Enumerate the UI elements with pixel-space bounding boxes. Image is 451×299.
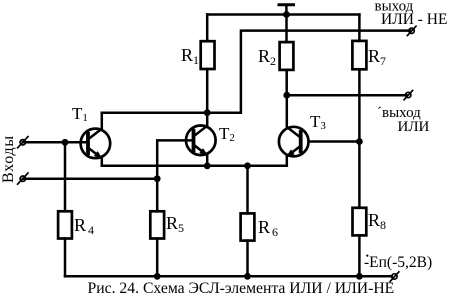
node R5 bottom: [154, 273, 161, 280]
svg-text:Т2: Т2: [219, 124, 235, 144]
label output OR-NOT: [375, 0, 448, 28]
svg-text:Рис. 24. Схема ЭСЛ-элемента ИЛ: Рис. 24. Схема ЭСЛ-элемента ИЛИ / ИЛИ-НЕ: [88, 280, 395, 297]
transistor T2: [186, 113, 235, 166]
wire input line 2: [23, 177, 157, 180]
wire T3 base: [309, 140, 359, 143]
node input 1 / R4: [62, 139, 69, 146]
svg-text:-Eп(-5,2В): -Eп(-5,2В): [364, 254, 432, 271]
resistor R7: [352, 15, 386, 142]
terminal input 2: [18, 173, 28, 184]
wire OR output line: [287, 94, 407, 97]
wire collector node to OR-NOT output: [207, 31, 410, 113]
node junction top rail / R2: [283, 11, 290, 18]
resistor R1: [181, 15, 215, 113]
resistor R8: [353, 208, 387, 276]
svg-text:ИЛИ - НЕ: ИЛИ - НЕ: [381, 11, 447, 28]
wire R4 branch: [64, 142, 67, 211]
svg-text:ИЛИ: ИЛИ: [398, 119, 430, 135]
wire T2 base branch: [157, 140, 193, 178]
wire emitter rail: [102, 165, 287, 168]
resistor R4: [58, 211, 94, 276]
label output OR: [377, 105, 430, 135]
transistor T1: [72, 104, 110, 166]
node input 2 / R5 / T2 base: [154, 175, 161, 182]
svg-text:Т3: Т3: [310, 112, 326, 132]
svg-text:R8: R8: [368, 210, 386, 232]
node R6 bottom: [244, 273, 251, 280]
resistor R5: [150, 179, 184, 277]
svg-text:R2: R2: [258, 46, 276, 68]
node emitter rail / R6: [244, 162, 251, 169]
label supply -Ep: [366, 255, 368, 257]
wire top ground rail: [207, 13, 359, 16]
svg-text:Т1: Т1: [72, 104, 88, 124]
node T3 base / R7 R8: [356, 138, 363, 145]
svg-text:R5: R5: [166, 213, 184, 235]
terminal output OR: [404, 90, 413, 99]
node R8 bottom: [356, 273, 363, 280]
svg-text:R1: R1: [181, 45, 199, 67]
wire input line 1: [23, 141, 88, 144]
terminal output OR-NOT: [407, 26, 416, 35]
terminal input 1: [18, 137, 28, 148]
ground: [279, 5, 294, 15]
resistor R2: [258, 15, 293, 96]
wire R7 to R8: [358, 142, 361, 208]
svg-text:Входы: Входы: [0, 135, 17, 183]
wire collector T1 horizontal: [102, 111, 207, 114]
node collector T1/T2 + R1: [204, 109, 211, 116]
transistor T3: [279, 95, 326, 166]
node emitter T2: [204, 162, 211, 169]
node R2 / T3 collector / OR output: [283, 92, 290, 99]
svg-text:R4: R4: [74, 215, 94, 237]
svg-text:R7: R7: [368, 46, 386, 68]
terminal supply -Ep: [390, 272, 399, 281]
resistor R6: [241, 166, 278, 276]
wire bottom supply rail: [65, 275, 392, 278]
svg-text:R6: R6: [258, 217, 278, 239]
